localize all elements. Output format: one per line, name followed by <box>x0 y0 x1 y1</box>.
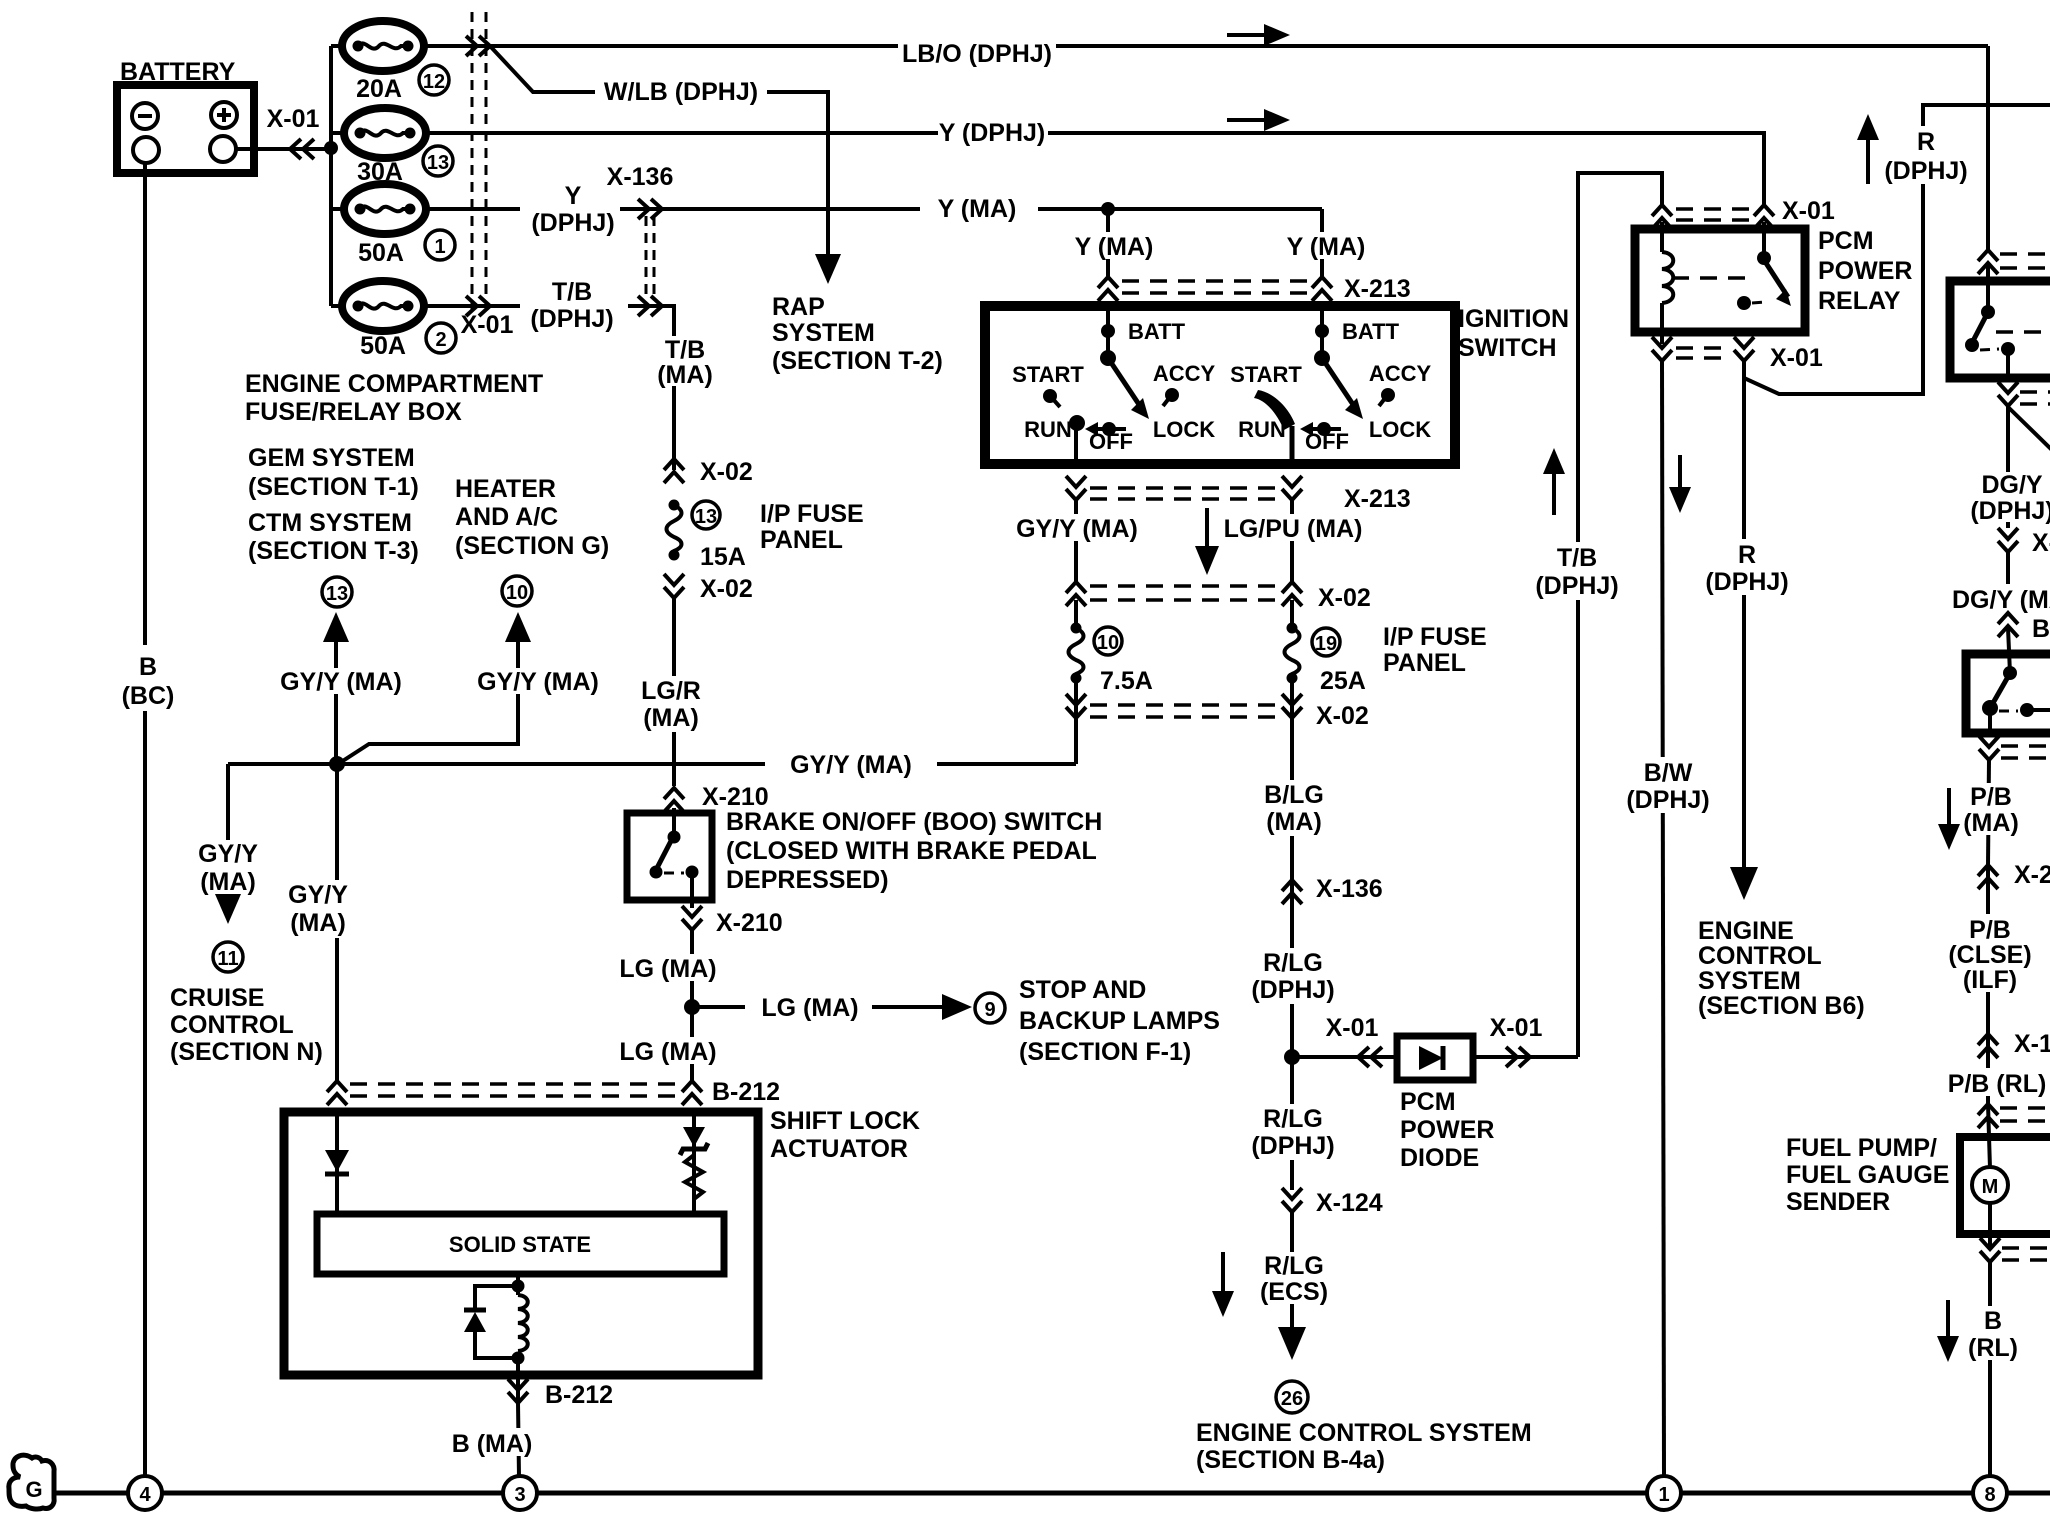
svg-text:FUSE/RELAY BOX: FUSE/RELAY BOX <box>245 398 462 426</box>
connector below relay 3 <box>1979 736 2050 760</box>
svg-text:W/LB (DPHJ): W/LB (DPHJ) <box>604 78 758 106</box>
svg-text:X-1: X-1 <box>2014 1030 2050 1058</box>
wire P/B (CLSE)(ILF) <box>1946 865 2032 1034</box>
connector X-136 vertical dashes <box>607 163 674 300</box>
svg-text:X-213: X-213 <box>1344 485 1411 513</box>
svg-text:FUEL GAUGE: FUEL GAUGE <box>1786 1161 1949 1189</box>
wire B/W (DPHJ) to ground <box>1622 361 1710 1476</box>
wire fuse bus <box>331 46 344 306</box>
fuse 30A (13) <box>344 108 453 186</box>
svg-text:(SECTION T-3): (SECTION T-3) <box>248 537 419 565</box>
svg-text:STOP AND: STOP AND <box>1019 976 1146 1004</box>
svg-text:POWER: POWER <box>1400 1116 1494 1144</box>
svg-text:M: M <box>1982 1176 1999 1198</box>
connector X-02 upper on T/B wire <box>664 458 753 486</box>
svg-text:(SECTION B6): (SECTION B6) <box>1698 992 1865 1020</box>
svg-text:7.5A: 7.5A <box>1100 667 1153 695</box>
wire W/LB (DPHJ) branch to RAP <box>490 46 841 284</box>
svg-text:B-212: B-212 <box>712 1078 780 1106</box>
wire GY/Y (MA) down to shift lock <box>272 764 364 1081</box>
svg-text:(DPHJ): (DPHJ) <box>531 209 614 237</box>
node circled 1 ground <box>1647 1476 1681 1510</box>
svg-text:PCM: PCM <box>1818 227 1874 255</box>
solid state box <box>317 1214 724 1274</box>
connector X-213 lower <box>1066 476 1411 513</box>
svg-text:(DPHJ): (DPHJ) <box>1251 976 1334 1004</box>
svg-text:BATT: BATT <box>1128 319 1186 344</box>
wire LG/R (MA) <box>630 598 718 786</box>
svg-text:START: START <box>1012 362 1084 387</box>
diode solenoid clamp <box>464 1310 486 1332</box>
svg-text:PANEL: PANEL <box>1383 649 1466 677</box>
text engine compartment fuse/relay box <box>245 370 543 426</box>
svg-text:LG/R: LG/R <box>641 677 701 705</box>
connector X-01 below PCM relay <box>1652 337 1823 372</box>
svg-text:15A: 15A <box>700 543 746 571</box>
svg-text:X-02: X-02 <box>700 458 753 486</box>
node GY/Y junction <box>329 756 345 772</box>
fuse 25A (19) <box>1285 600 1366 695</box>
svg-text:GY/Y (MA): GY/Y (MA) <box>477 668 599 696</box>
svg-text:G: G <box>25 1477 42 1502</box>
node circled 10 heater <box>502 576 532 606</box>
connector X-01 battery <box>267 105 320 159</box>
svg-text:LB/O (DPHJ): LB/O (DPHJ) <box>902 40 1052 68</box>
svg-text:26: 26 <box>1281 1388 1303 1410</box>
node LG junction <box>684 999 700 1015</box>
wire GY/Y (MA) to GEM arrow <box>276 612 406 764</box>
svg-text:19: 19 <box>1315 633 1337 655</box>
svg-text:BATT: BATT <box>1342 319 1400 344</box>
svg-text:B/LG: B/LG <box>1264 781 1324 809</box>
svg-text:X-01: X-01 <box>267 105 320 133</box>
resistor shift lock right <box>685 1155 703 1214</box>
svg-text:IGNITION: IGNITION <box>1458 305 1569 333</box>
svg-text:SENDER: SENDER <box>1786 1188 1890 1216</box>
svg-text:X-01: X-01 <box>1490 1014 1543 1042</box>
svg-text:SOLID STATE: SOLID STATE <box>449 1232 591 1257</box>
fuse 50A (1) <box>344 184 455 267</box>
svg-text:ACCY: ACCY <box>1153 361 1216 386</box>
svg-text:25A: 25A <box>1320 667 1366 695</box>
relay PCM power relay <box>1635 222 1805 344</box>
svg-text:(SECTION T-1): (SECTION T-1) <box>248 473 419 501</box>
svg-text:LG (MA): LG (MA) <box>761 994 858 1022</box>
svg-text:X-02: X-02 <box>700 575 753 603</box>
relay right edge lower <box>1966 628 2050 733</box>
wire B/LG (MA) <box>1254 718 1334 880</box>
svg-text:AND A/C: AND A/C <box>455 503 558 531</box>
wire R/LG (ECS) <box>1248 1212 1338 1360</box>
wire R/LG (DPHJ) lower <box>1246 1057 1340 1190</box>
svg-text:BATTERY: BATTERY <box>120 58 236 86</box>
ignition switch right half <box>1230 301 1431 469</box>
connector below fuel pump <box>1980 1238 2050 1262</box>
svg-text:CRUISE: CRUISE <box>170 984 264 1012</box>
wire current arrow on Y (DPHJ) line <box>1227 109 1290 131</box>
fuse 15A (13) I/P fuse panel <box>667 500 746 572</box>
svg-text:HEATER: HEATER <box>455 475 556 503</box>
shift lock actuator box <box>284 1107 920 1375</box>
wire LB/O (DPHJ) top line <box>425 32 1988 68</box>
svg-text:B-: B- <box>2032 615 2050 643</box>
svg-text:GY/Y (MA): GY/Y (MA) <box>790 751 912 779</box>
node circled 4 ground <box>128 1476 162 1510</box>
svg-text:X-01: X-01 <box>1770 344 1823 372</box>
text GEM SYSTEM / CTM SYSTEM <box>248 444 419 565</box>
wire R/LG (DPHJ) upper <box>1246 880 1340 1057</box>
connector X-01 fuse box pass-through <box>466 12 490 316</box>
wire GY/Y (MA) to cruise control arrow <box>182 764 276 924</box>
wire P/B (RL) <box>1940 1034 2050 1104</box>
svg-text:(MA): (MA) <box>1963 809 2019 837</box>
relay right edge upper <box>1950 266 2050 378</box>
svg-text:(DPHJ): (DPHJ) <box>1884 157 1967 185</box>
diode shift lock left <box>325 1150 349 1174</box>
svg-text:(CLOSED WITH BRAKE PEDAL: (CLOSED WITH BRAKE PEDAL <box>726 837 1097 865</box>
wire T/B (DPHJ) line from fuse 50A (2) <box>425 278 724 470</box>
svg-text:LOCK: LOCK <box>1369 417 1431 442</box>
svg-text:4: 4 <box>139 1484 151 1506</box>
svg-text:(DPHJ): (DPHJ) <box>1626 786 1709 814</box>
ground bus bottom line <box>52 1491 2050 1496</box>
connector X-1 <box>1978 1030 2050 1058</box>
svg-text:X-01: X-01 <box>1782 197 1835 225</box>
ground symbol G <box>9 1455 54 1509</box>
svg-text:ENGINE CONTROL SYSTEM: ENGINE CONTROL SYSTEM <box>1196 1419 1532 1447</box>
connector X-02 lower I/P <box>1066 678 1369 730</box>
node battery bus junction <box>324 141 338 155</box>
wire P/B (MA) <box>1952 760 2028 865</box>
svg-text:(BC): (BC) <box>122 682 175 710</box>
connector X-213 upper <box>1098 275 1411 303</box>
svg-text:BACKUP LAMPS: BACKUP LAMPS <box>1019 1007 1220 1035</box>
wire GY/Y (MA) to heater arrow <box>338 612 606 764</box>
svg-text:RAP: RAP <box>772 293 825 321</box>
svg-text:B: B <box>139 653 157 681</box>
svg-text:POWER: POWER <box>1818 257 1912 285</box>
svg-text:(MA): (MA) <box>290 909 346 937</box>
node circled 26 <box>1276 1381 1308 1413</box>
svg-text:RUN: RUN <box>1024 417 1072 442</box>
svg-text:1: 1 <box>434 236 445 258</box>
svg-text:B/W: B/W <box>1644 759 1693 787</box>
connector above relay 2 <box>1978 250 2050 274</box>
svg-text:DIODE: DIODE <box>1400 1144 1479 1172</box>
svg-text:8: 8 <box>1984 1484 1995 1506</box>
svg-text:20A: 20A <box>356 75 402 103</box>
svg-text:ENGINE: ENGINE <box>1698 917 1794 945</box>
svg-text:GY/Y (MA): GY/Y (MA) <box>1016 515 1138 543</box>
svg-text:2: 2 <box>435 329 446 351</box>
svg-text:X-213: X-213 <box>1344 275 1411 303</box>
svg-text:Y: Y <box>565 182 582 210</box>
svg-text:R: R <box>1738 541 1756 569</box>
svg-text:50A: 50A <box>358 239 404 267</box>
svg-text:Y (DPHJ): Y (DPHJ) <box>939 119 1046 147</box>
svg-text:B-212: B-212 <box>545 1381 613 1409</box>
svg-text:RUN: RUN <box>1238 417 1286 442</box>
wire PCM diode to T/B riser <box>1473 1014 1578 1067</box>
wire direction arrow beside T/B <box>1543 448 1565 515</box>
svg-text:(SECTION T-2): (SECTION T-2) <box>772 347 943 375</box>
svg-text:13: 13 <box>695 506 717 528</box>
svg-text:BRAKE ON/OFF (BOO) SWITCH: BRAKE ON/OFF (BOO) SWITCH <box>726 808 1102 836</box>
wire GY/Y (MA) from ignition <box>1000 500 1156 582</box>
node circled 13 GEM/CTM <box>322 577 352 607</box>
node circled 8 ground <box>1973 1476 2007 1510</box>
svg-text:R/LG: R/LG <box>1264 1252 1324 1280</box>
wire R (DPHJ) down to engine control <box>1702 378 1789 900</box>
wire LG/PU (MA) from ignition <box>1212 500 1374 582</box>
svg-text:11: 11 <box>217 948 238 970</box>
wire R/LG to PCM diode <box>1292 1014 1397 1067</box>
wire Y line from fuse 50A (1) <box>428 182 626 238</box>
svg-text:R/LG: R/LG <box>1263 949 1323 977</box>
svg-text:FUEL PUMP/: FUEL PUMP/ <box>1786 1134 1937 1162</box>
svg-text:X-01: X-01 <box>1326 1014 1379 1042</box>
svg-text:(DPHJ): (DPHJ) <box>1705 568 1788 596</box>
text HEATER AND A/C <box>455 475 609 560</box>
connector B-212 below shift lock <box>508 1379 613 1409</box>
svg-text:3: 3 <box>514 1484 525 1506</box>
svg-text:LG (MA): LG (MA) <box>619 1038 716 1066</box>
wire B (BC) battery negative to ground bus <box>118 163 174 1477</box>
svg-text:X-210: X-210 <box>702 783 769 811</box>
svg-text:(DPHJ): (DPHJ) <box>530 305 613 333</box>
svg-text:(SECTION F-1): (SECTION F-1) <box>1019 1038 1191 1066</box>
svg-text:GY/Y: GY/Y <box>288 881 348 909</box>
svg-text:12: 12 <box>423 71 445 93</box>
svg-text:T/B: T/B <box>665 336 705 364</box>
connector below relay 2 <box>1998 382 2050 406</box>
node circled 11 cruise <box>213 942 243 972</box>
wire battery positive to fuse bus <box>236 147 331 151</box>
svg-text:(RL): (RL) <box>1968 1334 2018 1362</box>
svg-text:X-124: X-124 <box>1316 1189 1383 1217</box>
wire current arrow on LB/O line <box>1227 24 1290 46</box>
svg-text:DG/Y: DG/Y <box>1981 471 2042 499</box>
text PCM POWER DIODE <box>1400 1088 1494 1172</box>
svg-text:GEM SYSTEM: GEM SYSTEM <box>248 444 415 472</box>
svg-text:(MA): (MA) <box>200 868 256 896</box>
svg-text:R/LG: R/LG <box>1263 1105 1323 1133</box>
svg-text:START: START <box>1230 362 1302 387</box>
diode PCM power diode <box>1397 1036 1473 1080</box>
inductor solenoid coil <box>518 1295 528 1351</box>
wire LG (MA) below BOO <box>618 930 728 1081</box>
fuse 20A (12) <box>342 21 449 103</box>
fuse 50A (2) <box>342 281 513 360</box>
connector X-210 upper <box>664 783 769 812</box>
text FUEL PUMP / FUEL GAUGE SENDER <box>1786 1134 1949 1216</box>
svg-text:Y (MA): Y (MA) <box>938 195 1017 223</box>
wire Y (DPHJ) line from fuse 30A <box>428 119 1764 206</box>
text STOP AND BACKUP LAMPS <box>1019 976 1220 1066</box>
svg-text:10: 10 <box>506 582 528 604</box>
node circled 3 ground <box>503 1476 537 1510</box>
wire DG/Y (DPHJ) <box>1968 406 2050 528</box>
wire Y (MA) drop to ignition BATT right <box>1268 209 1384 277</box>
svg-text:LG/PU (MA): LG/PU (MA) <box>1224 515 1363 543</box>
svg-text:I/P FUSE: I/P FUSE <box>760 500 864 528</box>
wire shift lock left branch <box>335 1112 339 1214</box>
connector X-2 <box>1978 861 2050 889</box>
wire T/B (DPHJ) riser to PCM relay <box>1535 173 1662 1057</box>
connector X-210 lower <box>682 906 783 937</box>
brake on/off switch BOO <box>627 808 712 908</box>
text ENGINE CONTROL SYSTEM (SECTION B-4a) <box>1196 1419 1532 1474</box>
text ENGINE CONTROL SYSTEM (SECTION B6) <box>1698 917 1865 1020</box>
svg-text:9: 9 <box>984 999 995 1021</box>
wire LB/O drop at right edge <box>1986 46 1990 250</box>
fuel pump / fuel gauge sender <box>1960 1104 2050 1247</box>
svg-text:(MA): (MA) <box>1266 808 1322 836</box>
node circled 9 stop lamps <box>975 993 1005 1023</box>
wire DG/Y (MA) <box>1950 552 2050 614</box>
connector X-02 lower on T/B wire <box>664 574 753 603</box>
wire LG (MA) stub to stop lamps <box>692 994 972 1022</box>
svg-text:(MA): (MA) <box>657 361 713 389</box>
wire B (MA) to ground bus <box>434 1403 550 1477</box>
svg-text:SYSTEM: SYSTEM <box>1698 967 1801 995</box>
wire direction arrow beside P/B <box>1938 788 1960 850</box>
wire direction arrow beside ECS <box>1212 1252 1234 1317</box>
svg-text:GY/Y: GY/Y <box>198 840 258 868</box>
svg-text:X-2: X-2 <box>2014 861 2050 889</box>
svg-text:(DPHJ): (DPHJ) <box>1970 497 2050 525</box>
svg-text:(DPHJ): (DPHJ) <box>1251 1132 1334 1160</box>
svg-text:10: 10 <box>1097 632 1119 654</box>
svg-text:PANEL: PANEL <box>760 526 843 554</box>
svg-text:SWITCH: SWITCH <box>1458 334 1557 362</box>
connector B-212 into shift lock <box>327 1078 780 1106</box>
wire direction arrow beside B (RL) <box>1937 1300 1959 1362</box>
connector X-02 upper I/P <box>1066 582 1371 612</box>
wire R (DPHJ) up and right <box>1744 105 2050 394</box>
connector X-136 on B/LG <box>1282 875 1383 904</box>
svg-text:(MA): (MA) <box>643 704 699 732</box>
svg-text:X-210: X-210 <box>716 909 783 937</box>
svg-text:13: 13 <box>326 583 348 605</box>
svg-text:(CLSE): (CLSE) <box>1948 941 2031 969</box>
svg-text:X-02: X-02 <box>1318 584 1371 612</box>
svg-text:I/P FUSE: I/P FUSE <box>1383 623 1487 651</box>
ignition switch box <box>985 305 1569 464</box>
svg-text:(SECTION B-4a): (SECTION B-4a) <box>1196 1446 1385 1474</box>
svg-text:SHIFT LOCK: SHIFT LOCK <box>770 1107 920 1135</box>
svg-text:LG (MA): LG (MA) <box>619 955 716 983</box>
connector X-01 above PCM relay <box>1652 197 1835 229</box>
svg-text:B (MA): B (MA) <box>452 1430 533 1458</box>
svg-text:X-136: X-136 <box>1316 875 1383 903</box>
svg-text:T/B: T/B <box>552 278 592 306</box>
battery <box>117 58 254 173</box>
svg-text:P/B: P/B <box>1969 916 2011 944</box>
ignition switch left half <box>1012 301 1215 469</box>
wire Y (MA) drop to ignition BATT left <box>1056 209 1172 277</box>
svg-text:ENGINE COMPARTMENT: ENGINE COMPARTMENT <box>245 370 543 398</box>
svg-text:DG/Y (MA): DG/Y (MA) <box>1952 586 2050 614</box>
svg-text:T/B: T/B <box>1557 544 1597 572</box>
svg-text:PCM: PCM <box>1400 1088 1456 1116</box>
svg-text:DEPRESSED): DEPRESSED) <box>726 866 889 894</box>
connector X-124 <box>1282 1188 1383 1217</box>
svg-text:X-136: X-136 <box>607 163 674 191</box>
svg-text:Y (MA): Y (MA) <box>1287 233 1366 261</box>
svg-text:ACCY: ACCY <box>1369 361 1432 386</box>
wire GY/Y (MA) horizontal line <box>228 750 1076 779</box>
svg-text:(SECTION G): (SECTION G) <box>455 532 609 560</box>
fuse 7.5A (10) <box>1069 600 1153 695</box>
wire shift lock right branch <box>692 1112 696 1214</box>
svg-text:B: B <box>1984 1307 2002 1335</box>
wire B (RL) to ground <box>1960 1262 2024 1476</box>
svg-text:X-02: X-02 <box>1316 702 1369 730</box>
text BRAKE ON/OFF (BOO) SWITCH <box>726 808 1102 894</box>
node Y (MA) junction <box>1101 202 1115 216</box>
svg-text:(ILF): (ILF) <box>1963 966 2017 994</box>
wire direction arrow beside R riser <box>1857 114 1879 184</box>
svg-text:P/B: P/B <box>1970 783 2012 811</box>
svg-text:(SECTION N): (SECTION N) <box>170 1038 323 1066</box>
wire pointer diagonal <box>2008 407 2050 450</box>
svg-text:CONTROL: CONTROL <box>1698 942 1822 970</box>
svg-text:CTM SYSTEM: CTM SYSTEM <box>248 509 412 537</box>
svg-text:RELAY: RELAY <box>1818 287 1901 315</box>
text I/P FUSE PANEL lower <box>1383 623 1487 677</box>
svg-text:X-: X- <box>2032 529 2050 557</box>
wire solenoid parallel circuit <box>475 1274 525 1403</box>
svg-text:P/B (RL): P/B (RL) <box>1948 1070 2047 1098</box>
text I/P FUSE PANEL <box>760 500 864 554</box>
connector X on DG/Y <box>1998 528 2050 557</box>
svg-text:CONTROL: CONTROL <box>170 1011 294 1039</box>
svg-text:(DPHJ): (DPHJ) <box>1535 572 1618 600</box>
svg-text:1: 1 <box>1658 1484 1669 1506</box>
text PCM POWER RELAY <box>1818 227 1912 315</box>
svg-text:50A: 50A <box>360 332 406 360</box>
svg-text:ACTUATOR: ACTUATOR <box>770 1135 908 1163</box>
connector above fuel pump <box>1978 1104 2050 1128</box>
svg-text:(ECS): (ECS) <box>1260 1278 1328 1306</box>
svg-text:Y (MA): Y (MA) <box>1075 233 1154 261</box>
svg-text:SYSTEM: SYSTEM <box>772 319 875 347</box>
svg-text:GY/Y (MA): GY/Y (MA) <box>280 668 402 696</box>
svg-text:R: R <box>1917 128 1935 156</box>
connector B- into relay 3 <box>1998 613 2050 643</box>
wire Y (MA) line <box>620 195 1322 223</box>
svg-text:13: 13 <box>427 152 449 174</box>
diode zener shift lock right <box>680 1127 708 1155</box>
node R/LG junction <box>1284 1049 1300 1065</box>
text CRUISE CONTROL (SECTION N) <box>170 984 323 1066</box>
wire GY/Y (MA) joining horizontal <box>1074 718 1078 764</box>
wire direction arrow beside B/W <box>1669 455 1691 513</box>
text RAP SYSTEM (SECTION T-2) <box>772 293 943 375</box>
svg-text:LOCK: LOCK <box>1153 417 1215 442</box>
wire direction arrow between columns <box>1195 508 1219 575</box>
